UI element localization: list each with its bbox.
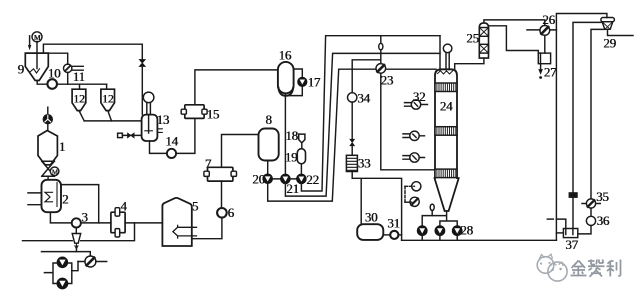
wire: pump 22 loop L1 to column top bbox=[301, 36, 440, 191]
pump 21 bbox=[281, 174, 290, 183]
svg-text:32: 32 bbox=[413, 89, 426, 104]
wire: 7 top to vessel 8 bbox=[222, 135, 259, 168]
quench tank 37 bbox=[563, 229, 577, 238]
wire: 25 top to pump 26 bbox=[484, 20, 545, 26]
svg-text:12: 12 bbox=[102, 92, 114, 106]
pump 23 bbox=[376, 64, 386, 74]
bottom pump 28a bbox=[417, 226, 427, 236]
wire: signal dash bbox=[547, 218, 553, 220]
wire: riser A branch to 37 bbox=[556, 219, 565, 228]
pump P right (spare) bbox=[78, 256, 107, 267]
wire: pump 21 loop L2 bbox=[285, 53, 440, 196]
vessel 13 bbox=[142, 115, 163, 141]
wire: top line tank9 to valve/vessel13 bbox=[43, 44, 142, 59]
column 24 shell bbox=[435, 69, 457, 178]
wire: riser A bbox=[556, 14, 607, 241]
wire: 7 bottom to pump 6 to tank 5 bbox=[192, 181, 222, 239]
vent pot on column bbox=[443, 44, 452, 69]
wire: funnel collect line bbox=[42, 252, 91, 257]
pot 27 bbox=[538, 53, 550, 64]
svg-text:34: 34 bbox=[357, 91, 370, 106]
svg-text:29: 29 bbox=[603, 36, 616, 51]
svg-text:22: 22 bbox=[306, 172, 319, 187]
gauge mid1 bbox=[403, 131, 425, 140]
svg-text:7: 7 bbox=[205, 156, 212, 171]
wire: 19 to pump 22 bbox=[300, 164, 302, 174]
gauge dashed upper bbox=[405, 182, 421, 203]
vessel 2 (steam heated) bbox=[42, 180, 62, 212]
pump 35 bbox=[582, 199, 600, 208]
pump 6 bbox=[217, 208, 227, 218]
pump 3 bbox=[72, 218, 81, 227]
gauge 34 bbox=[348, 93, 357, 102]
svg-text:M: M bbox=[34, 33, 41, 42]
wire: hoppers to vessel 13 bbox=[84, 120, 141, 122]
filter 4 bbox=[111, 208, 125, 237]
svg-text:9: 9 bbox=[18, 62, 24, 77]
wire: 34 measuring line bbox=[352, 60, 381, 93]
svg-text:33: 33 bbox=[358, 156, 371, 171]
wire: drops to hoppers 12 bbox=[80, 84, 107, 89]
pump loop lower-left bbox=[44, 263, 71, 284]
svg-text:2: 2 bbox=[62, 192, 68, 207]
svg-text:17: 17 bbox=[308, 75, 321, 90]
svg-text:18: 18 bbox=[285, 128, 298, 143]
inline valve on riser B bbox=[569, 193, 577, 197]
svg-text:M: M bbox=[52, 168, 59, 176]
exchanger 7 bbox=[204, 167, 237, 181]
motor M on tank 9 bbox=[32, 32, 42, 53]
svg-text:26: 26 bbox=[542, 12, 555, 27]
control valve into 13 bbox=[118, 133, 142, 138]
wire: riser C to 29 bbox=[591, 29, 605, 199]
loop pump bottom bbox=[57, 278, 68, 289]
svg-text:11: 11 bbox=[73, 69, 85, 84]
wire: vessel 2 bottom line through pump 3 to filter 4 bbox=[50, 213, 111, 223]
svg-text:37: 37 bbox=[565, 237, 578, 252]
watermark logo cats bbox=[537, 257, 554, 274]
wire: vessel 2 vapor loop bbox=[61, 185, 99, 223]
wire: 25 side to pot 27 bbox=[489, 26, 539, 53]
funnel drain below pump 3 bbox=[72, 228, 81, 252]
wire: pump 20 loop L3 to circle 23 line bbox=[268, 69, 436, 201]
watermark text jin zi li bbox=[571, 260, 621, 277]
loop pump top bbox=[57, 257, 67, 267]
pump 22 bbox=[297, 174, 306, 183]
svg-text:8: 8 bbox=[265, 112, 271, 127]
tank 5 (heated) bbox=[162, 198, 196, 246]
svg-text:6: 6 bbox=[228, 205, 235, 220]
svg-text:1: 1 bbox=[59, 139, 65, 154]
wire: steam lines into 2 bbox=[28, 193, 41, 205]
wire: 29 underflow to right bbox=[608, 29, 634, 35]
vessel 8 bbox=[259, 129, 279, 161]
feed arrow into tank 9 bbox=[28, 36, 31, 51]
cyclone 29 bbox=[601, 18, 615, 30]
blower 11 bbox=[63, 64, 71, 72]
wire: 23 down to reboiler line into column bbox=[381, 73, 435, 170]
wire: tank9 to blower 11 bbox=[48, 53, 67, 64]
svg-text:14: 14 bbox=[165, 134, 178, 149]
wire: bottoms line to far right riser bbox=[402, 236, 557, 241]
svg-text:31: 31 bbox=[387, 216, 400, 231]
svg-text:36: 36 bbox=[597, 213, 610, 228]
svg-text:13: 13 bbox=[157, 112, 170, 127]
wire: reflux feed vertical into dome bbox=[439, 36, 441, 71]
packing band top bbox=[435, 83, 457, 92]
gauge mid2 bbox=[403, 153, 425, 162]
level pot on 13 bbox=[143, 92, 154, 115]
wire: blower 11 outlet stubs bbox=[72, 66, 83, 70]
wire: drain line lower left bbox=[23, 223, 135, 241]
pump 10 bbox=[47, 79, 57, 89]
pump 14 bbox=[167, 149, 176, 158]
vessel 9 (mixing tank) bbox=[25, 53, 48, 80]
valve between 34 and 33 bbox=[350, 102, 355, 155]
filter 15 bbox=[181, 105, 207, 119]
svg-text:25: 25 bbox=[466, 31, 479, 46]
svg-text:23: 23 bbox=[380, 73, 393, 88]
wire: tank 9 bottom transfer line bbox=[37, 81, 106, 85]
receiver 30 bbox=[357, 224, 383, 240]
pump 20 bbox=[263, 174, 272, 183]
wire: blower 11 down to transfer line bbox=[67, 73, 69, 85]
vessel 16 bbox=[278, 62, 294, 94]
svg-text:15: 15 bbox=[207, 107, 220, 122]
vent valve above 23 bbox=[379, 36, 383, 64]
wire: 8 bottom to pump 20 bbox=[267, 161, 269, 175]
wire: link into pump loop bbox=[72, 262, 78, 271]
svg-text:28: 28 bbox=[460, 223, 473, 238]
svg-text:12: 12 bbox=[73, 92, 85, 106]
wire: 37 left tie bbox=[556, 232, 563, 234]
gauge dashed lower bbox=[405, 197, 419, 206]
svg-text:3: 3 bbox=[81, 210, 87, 225]
svg-text:4: 4 bbox=[120, 199, 127, 214]
vent rotary on vessel 1 bbox=[43, 107, 52, 130]
svg-text:27: 27 bbox=[544, 65, 557, 80]
svg-text:5: 5 bbox=[192, 199, 198, 214]
wire: cone to bottom pumps manifold bbox=[422, 211, 457, 226]
trap 36 bbox=[586, 208, 595, 225]
svg-text:21: 21 bbox=[286, 181, 299, 196]
hopper 12 (right) bbox=[101, 89, 115, 121]
wire: dome to packed column 25 bbox=[455, 58, 484, 69]
bottom pump 28b bbox=[435, 226, 445, 236]
packed column 25 bbox=[479, 23, 488, 58]
pump 26 bbox=[540, 26, 550, 36]
seal pot 19 bbox=[297, 149, 305, 164]
wire: 26 suction stub bbox=[527, 29, 556, 31]
pump 31 bbox=[383, 231, 401, 239]
svg-text:35: 35 bbox=[596, 189, 609, 204]
cooler 33 (coil) bbox=[346, 155, 357, 171]
packing band bottom bbox=[435, 169, 457, 178]
wire: riser B through valve to quench pot 37 bbox=[573, 22, 602, 228]
column cone bottom bbox=[435, 178, 459, 211]
wire: 16 bottom down to pump 21 bbox=[284, 93, 286, 174]
packing band middle bbox=[435, 127, 457, 136]
svg-text:20: 20 bbox=[252, 172, 265, 187]
valve on feed line to 13 bbox=[139, 60, 145, 115]
wire: 33 bottom header to 30 and 31 bbox=[352, 172, 401, 241]
wire: 36 to 37 bbox=[578, 226, 591, 234]
wire: 4 to tank 5 bbox=[125, 222, 162, 224]
cone drain valve bbox=[430, 204, 434, 216]
pump 17 bbox=[298, 77, 307, 86]
svg-text:30: 30 bbox=[365, 210, 378, 225]
svg-text:10: 10 bbox=[48, 66, 61, 81]
wire: 13 bottom through pump 14 up to filter 15 bbox=[150, 118, 195, 153]
wire: 16 right loop to pump 17 bbox=[285, 69, 302, 96]
drain arrow below 27 bbox=[539, 64, 543, 79]
gauge 32 bbox=[405, 100, 428, 109]
wire: 26 to pot 27 bbox=[544, 35, 546, 53]
svg-text:16: 16 bbox=[278, 48, 291, 63]
rotary valve with motor between 1 and 2 bbox=[42, 161, 59, 179]
hopper 1 bbox=[38, 131, 57, 165]
bottom pump 28c bbox=[452, 226, 462, 236]
svg-text:19: 19 bbox=[285, 150, 298, 165]
wire: pump header 20-21-22 bbox=[268, 178, 302, 180]
vent funnel 18 bbox=[299, 134, 305, 149]
svg-text:24: 24 bbox=[440, 99, 453, 114]
hopper 12 (left) bbox=[72, 89, 86, 121]
wire: 15 to feed tank 16 bbox=[195, 70, 278, 105]
